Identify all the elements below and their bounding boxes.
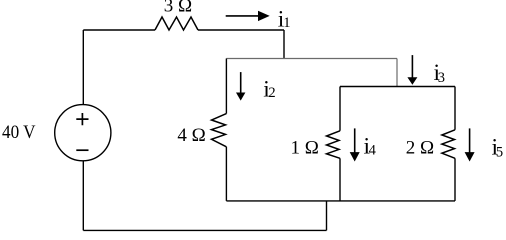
wire rail2 (node A horizontal) (226, 58, 397, 60)
current arrow i2 (236, 72, 245, 101)
wire left vertical (source to bottom) (82, 161, 84, 231)
wire bottom external horizontal (83, 229, 326, 231)
wire 4-ohm branch upper vertical (225, 59, 227, 114)
svg-text:1 Ω: 1 Ω (291, 137, 319, 158)
wire top-right vertical drop (283, 30, 285, 59)
wire top-left horizontal (source top to 3-ohm) (83, 29, 155, 31)
current arrow i1 (226, 11, 270, 21)
voltage source VS 40 V (circle) (55, 105, 111, 161)
svg-text:3: 3 (438, 70, 445, 86)
resistor R 2 ohm (vertical zigzag) (442, 130, 455, 159)
resistor R 1 ohm (vertical zigzag) (327, 131, 341, 159)
svg-text:4: 4 (369, 143, 377, 159)
wire bottom rail of loops (226, 200, 455, 202)
svg-text:2: 2 (268, 85, 275, 101)
wire top horizontal (3-ohm to top-right corner) (198, 29, 284, 31)
current arrow i4 (350, 128, 360, 161)
svg-text:2 Ω: 2 Ω (406, 137, 434, 158)
wire rail2 right vertical drop (396, 59, 398, 87)
wire 1-ohm branch upper vertical (339, 87, 341, 131)
wire 2-ohm branch upper vertical (454, 87, 456, 130)
svg-text:40 V: 40 V (2, 122, 36, 143)
current arrow i5 (465, 128, 475, 161)
source minus sign (76, 149, 88, 151)
svg-text:3 Ω: 3 Ω (164, 0, 192, 17)
svg-text:1: 1 (283, 15, 290, 31)
source plus sign (76, 113, 88, 125)
wire rail3 (node B horizontal, top of right loop) (340, 86, 455, 88)
wire 2-ohm branch lower vertical (454, 158, 456, 201)
wire left vertical (top wire to source) (82, 30, 84, 105)
wire 4-ohm branch lower vertical (225, 147, 227, 201)
wire bottom connector vertical up to rail (326, 201, 328, 231)
resistor R 4 ohm (vertical zigzag) (212, 114, 227, 147)
resistor R 3 ohm (horizontal zigzag) (155, 17, 198, 30)
svg-text:5: 5 (496, 144, 503, 160)
svg-text:4 Ω: 4 Ω (177, 125, 205, 146)
current arrow i3 (407, 55, 417, 85)
wire 1-ohm branch lower vertical (339, 158, 341, 201)
